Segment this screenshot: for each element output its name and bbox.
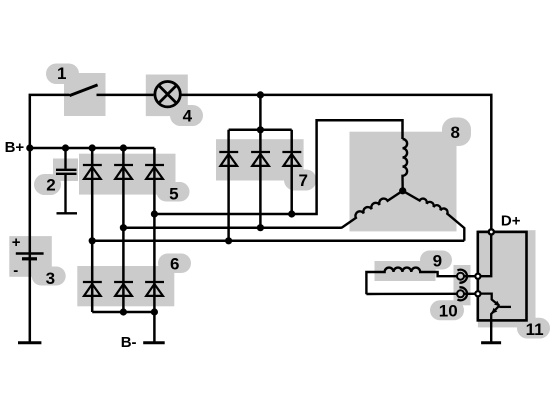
regulator backdrop 11 bbox=[478, 230, 536, 327]
svg-text:10: 10 bbox=[439, 302, 458, 321]
junction cap top bbox=[62, 144, 69, 151]
wire diode column 2 bbox=[122, 148, 125, 312]
wire bottom bus bbox=[92, 311, 154, 314]
wire top left bbox=[30, 95, 70, 148]
junction bus col3 bbox=[151, 308, 158, 315]
switch S1 bbox=[70, 85, 98, 96]
battery box bbox=[9, 236, 52, 277]
wire left vertical to ground bbox=[29, 148, 32, 343]
diode D3 bbox=[145, 165, 164, 179]
diode D7 bbox=[219, 152, 238, 166]
label blob 8 bbox=[442, 118, 471, 147]
lamp H1 bbox=[155, 82, 180, 107]
stator winding top bbox=[403, 139, 408, 191]
ground regulator bbox=[481, 341, 501, 344]
label blob 11 bbox=[517, 318, 550, 339]
label blob 6 bbox=[158, 254, 191, 274]
svg-text:8: 8 bbox=[451, 123, 460, 142]
junction col2 top bbox=[120, 144, 127, 151]
svg-text:2: 2 bbox=[46, 176, 55, 195]
junction g7 bus bbox=[257, 126, 264, 133]
brush lower bbox=[457, 287, 467, 300]
wire group7 column 1 bbox=[227, 130, 230, 241]
label blob 5 bbox=[157, 182, 190, 202]
wire diode column 3 bbox=[153, 148, 156, 343]
svg-text:3: 3 bbox=[46, 269, 55, 288]
rectifier box 7 bbox=[216, 139, 304, 180]
label blob 9 bbox=[420, 251, 452, 270]
junction bus col2 bbox=[120, 308, 127, 315]
svg-text:7: 7 bbox=[299, 171, 308, 190]
junction phase3 tap bbox=[89, 237, 96, 244]
svg-text:11: 11 bbox=[526, 320, 544, 339]
svg-text:5: 5 bbox=[169, 185, 178, 204]
label blob 10 bbox=[430, 300, 464, 320]
regulator ground wire bbox=[490, 320, 492, 342]
junction star center bbox=[399, 187, 406, 194]
rectifier box 6 bbox=[77, 266, 174, 306]
stator winding left bbox=[341, 191, 403, 228]
wire top right to D+ bbox=[181, 95, 491, 230]
junction phase1 tap bbox=[151, 210, 158, 217]
junction top wire g7 bbox=[257, 91, 264, 98]
ground left bbox=[18, 341, 41, 344]
svg-text:9: 9 bbox=[433, 251, 442, 270]
label blob 4 bbox=[170, 105, 203, 126]
svg-text:6: 6 bbox=[170, 255, 179, 274]
label blob 2 bbox=[34, 174, 61, 195]
wire brush lower to regulator bbox=[464, 293, 478, 295]
label blob 3 bbox=[32, 267, 66, 286]
wire phase 3 bbox=[92, 240, 464, 243]
svg-text:B-: B- bbox=[121, 334, 137, 351]
wire group7 bus bbox=[229, 129, 292, 132]
wire group7 column 3 bbox=[290, 130, 293, 214]
svg-text:+: + bbox=[12, 234, 21, 251]
rectifier box 5 bbox=[79, 154, 176, 195]
junction phase2 tap bbox=[120, 224, 127, 231]
battery G1 bbox=[16, 254, 44, 259]
junction g7 col3 phase1 bbox=[288, 210, 295, 217]
regulator internal wire D+ to brush bbox=[480, 234, 491, 277]
junction g7 col1 phase3 bbox=[225, 237, 232, 244]
capacitor box bbox=[53, 159, 78, 182]
diode D6 bbox=[145, 282, 164, 296]
brush upper bbox=[457, 270, 467, 283]
label blob 1 bbox=[46, 64, 79, 85]
diode D8 bbox=[251, 152, 270, 166]
D+ pin bbox=[489, 229, 494, 234]
label blob 7 bbox=[284, 170, 317, 191]
wire group7 column 2 bbox=[259, 130, 262, 228]
diode D5 bbox=[114, 282, 133, 296]
wire top middle bbox=[97, 94, 154, 97]
transistor T1 bbox=[479, 294, 511, 321]
lamp box bbox=[146, 75, 188, 117]
svg-text:-: - bbox=[13, 262, 18, 279]
wire diode column 1 bbox=[91, 148, 94, 312]
stator winding right bbox=[403, 191, 465, 241]
pin brush lower bbox=[475, 291, 480, 296]
diode D4 bbox=[83, 282, 102, 296]
wire group7 feed bbox=[259, 95, 262, 130]
pin brush upper bbox=[475, 274, 480, 279]
brush strip 10 bbox=[454, 265, 471, 305]
ground B- bbox=[143, 341, 165, 344]
stator box 8 bbox=[350, 132, 457, 232]
svg-text:4: 4 bbox=[183, 107, 193, 126]
rotor winding 9 bbox=[366, 268, 457, 295]
junction g7 col2 phase2 bbox=[257, 224, 264, 231]
regulator box 11 bbox=[478, 232, 527, 321]
junction B+ bbox=[26, 144, 33, 151]
diode D9 bbox=[282, 152, 301, 166]
diode D1 bbox=[83, 165, 102, 179]
rotor wire bottom bbox=[366, 293, 457, 296]
transistor arrows bbox=[491, 301, 500, 314]
rotor box 9 bbox=[375, 261, 436, 281]
svg-text:1: 1 bbox=[57, 64, 66, 83]
wire phase 2 bbox=[123, 226, 341, 229]
junction col1 top bbox=[89, 144, 96, 151]
diode D2 bbox=[114, 165, 133, 179]
svg-text:B+: B+ bbox=[5, 139, 25, 156]
wire brush upper to regulator bbox=[464, 275, 478, 277]
switch S box bbox=[64, 73, 106, 116]
capacitor C1 bbox=[56, 148, 77, 213]
wire B+ bus bbox=[30, 147, 155, 150]
svg-text:D+: D+ bbox=[501, 213, 521, 230]
wire phase 1 bbox=[154, 120, 402, 214]
